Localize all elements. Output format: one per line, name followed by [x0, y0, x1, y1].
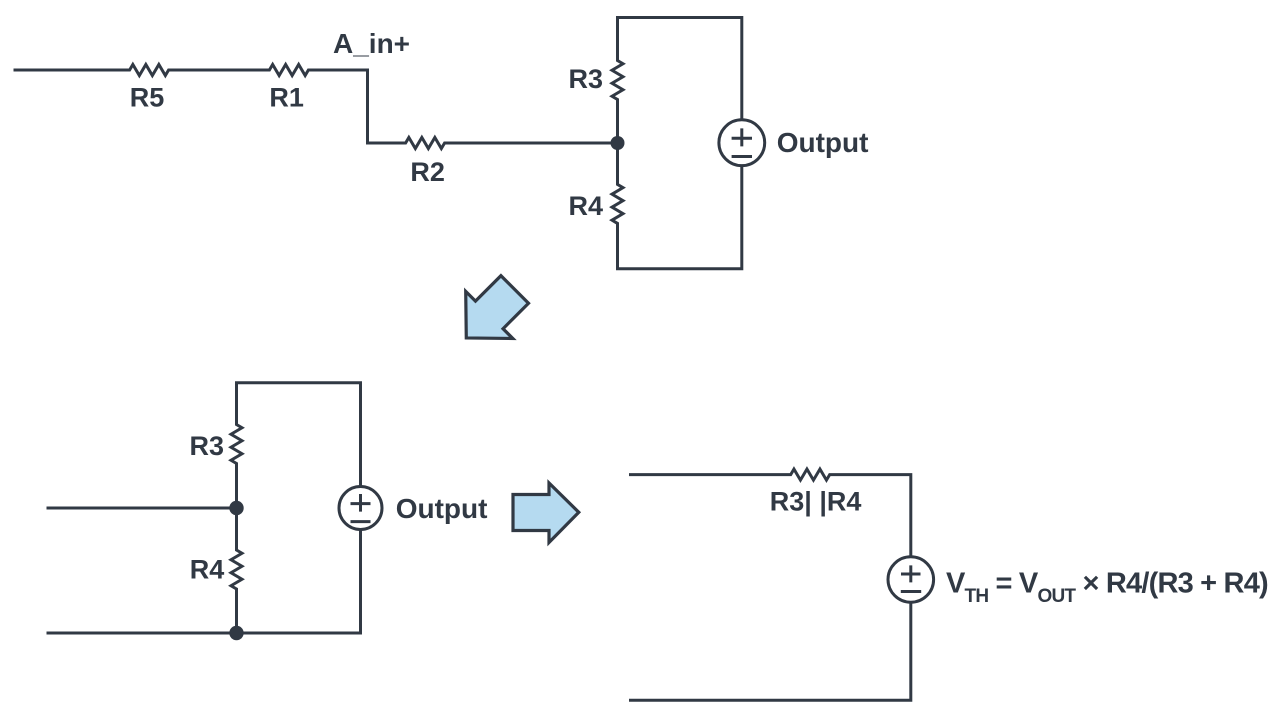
svg-text:R2: R2 [410, 157, 445, 187]
svg-text:R3| |R4: R3| |R4 [770, 487, 862, 517]
svg-text:A_in+: A_in+ [333, 28, 410, 59]
svg-text:Output: Output [396, 493, 488, 524]
svg-text:R4: R4 [190, 555, 225, 585]
svg-text:R1: R1 [269, 83, 304, 113]
svg-text:R3: R3 [189, 431, 224, 461]
svg-text:R4: R4 [568, 191, 603, 221]
svg-text:Output: Output [777, 127, 869, 158]
svg-text:R5: R5 [130, 83, 165, 113]
svg-text:R3: R3 [568, 64, 603, 94]
